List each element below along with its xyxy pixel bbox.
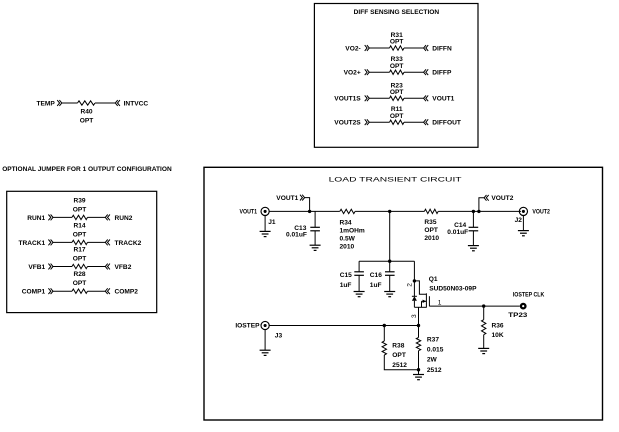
wire	[472, 211, 474, 227]
svg-text:RUN2: RUN2	[115, 215, 133, 222]
node mid node	[388, 210, 391, 213]
svg-text:J3: J3	[275, 333, 283, 340]
node R38 node	[383, 324, 386, 327]
svg-text:R35: R35	[424, 219, 436, 226]
wire	[418, 351, 420, 375]
wire	[355, 210, 424, 212]
svg-text:VOUT1S: VOUT1S	[334, 96, 361, 103]
svg-text:R14: R14	[73, 222, 85, 229]
wire	[418, 326, 420, 338]
svg-text:OPT: OPT	[73, 231, 87, 238]
wire	[314, 211, 316, 227]
svg-text:0.01uF: 0.01uF	[447, 229, 468, 236]
wire	[389, 211, 391, 261]
wire	[483, 306, 485, 320]
svg-text:DIFF SENSING SELECTION: DIFF SENSING SELECTION	[354, 9, 440, 16]
box LOAD TRANSIENT CIRCUIT	[204, 167, 603, 420]
svg-text:VO2-: VO2-	[345, 45, 360, 52]
off-page connector chevron TEMP	[57, 100, 59, 106]
resistor R39	[72, 215, 88, 219]
wire	[269, 210, 340, 212]
chevron DIFFP	[424, 69, 426, 75]
chevron TRACK1	[48, 240, 50, 246]
svg-text:R39: R39	[73, 197, 85, 204]
svg-text:R40: R40	[80, 109, 92, 116]
svg-text:R28: R28	[73, 271, 85, 278]
node Q1 drain node	[413, 279, 416, 282]
svg-text:INTVCC: INTVCC	[124, 100, 149, 107]
ground under C15	[354, 292, 365, 297]
resistor R23	[390, 96, 405, 100]
wire	[522, 216, 524, 231]
wire	[383, 326, 385, 342]
svg-text:RUN1: RUN1	[27, 215, 45, 222]
node VOUT1 stub junction	[308, 210, 311, 213]
chevron VOUT2	[484, 195, 486, 201]
svg-text:2512: 2512	[427, 367, 442, 374]
svg-text:OPT: OPT	[390, 39, 404, 46]
svg-text:10K: 10K	[492, 332, 504, 339]
svg-text:OPT: OPT	[80, 118, 94, 125]
svg-text:R37: R37	[427, 336, 439, 343]
wire	[264, 216, 266, 232]
svg-text:COMP1: COMP1	[22, 289, 46, 296]
svg-text:C15: C15	[340, 272, 352, 279]
wire	[369, 71, 389, 73]
transistor Q1	[412, 281, 430, 308]
wire	[62, 102, 78, 104]
chevron RUN1	[48, 215, 50, 221]
wire	[389, 261, 391, 272]
resistor R40	[78, 101, 96, 105]
svg-text:OPT: OPT	[392, 352, 406, 359]
node source node	[417, 324, 420, 327]
wire	[314, 231, 316, 245]
ground under C13	[310, 245, 321, 250]
wire	[305, 198, 310, 212]
svg-text:2010: 2010	[424, 235, 439, 242]
svg-text:R38: R38	[392, 342, 404, 349]
svg-text:VOUT1: VOUT1	[432, 96, 454, 103]
resistor R37	[416, 338, 420, 351]
chevron DIFFN	[424, 45, 426, 51]
wire	[389, 275, 391, 291]
resistor R36	[482, 320, 486, 335]
off-page connector chevron INTVCC	[115, 100, 117, 106]
wire	[264, 330, 266, 350]
wire	[88, 290, 106, 292]
wire	[369, 47, 389, 49]
resistor R35	[424, 209, 438, 213]
svg-text:1mOHm: 1mOHm	[340, 227, 365, 234]
svg-text:OPT: OPT	[390, 89, 404, 96]
svg-text:IOSTEP CLK: IOSTEP CLK	[513, 291, 545, 298]
wire	[53, 290, 72, 292]
chevron VOUT1S	[365, 95, 367, 101]
node R36 node	[482, 304, 485, 307]
wire	[404, 121, 424, 123]
connector J3	[261, 321, 269, 329]
ground under R36	[478, 348, 489, 353]
wire	[95, 102, 115, 104]
svg-text:3: 3	[411, 314, 418, 318]
svg-text:VOUT2: VOUT2	[532, 208, 550, 215]
svg-text:LOAD TRANSIENT CIRCUIT: LOAD TRANSIENT CIRCUIT	[329, 177, 462, 184]
wire	[413, 261, 415, 281]
connector J2	[519, 207, 527, 215]
chevron COMP1	[48, 288, 50, 294]
resistor R14	[72, 240, 88, 244]
wire	[483, 335, 485, 349]
wire	[404, 97, 424, 99]
box DIFF SENSING SELECTION	[314, 4, 478, 148]
wire	[384, 355, 418, 370]
svg-text:J1: J1	[268, 219, 276, 226]
svg-text:IOSTEP: IOSTEP	[235, 323, 260, 330]
wire	[88, 216, 106, 218]
node R37 bottom node	[417, 368, 420, 371]
svg-text:R17: R17	[73, 247, 85, 254]
resistor R34	[340, 209, 355, 213]
svg-text:VO2+: VO2+	[344, 70, 361, 77]
svg-text:COMP2: COMP2	[115, 289, 139, 296]
svg-text:2010: 2010	[340, 244, 355, 251]
resistor R38	[382, 341, 386, 355]
svg-text:2512: 2512	[392, 362, 407, 369]
wire	[53, 216, 72, 218]
capacitor C16	[385, 272, 395, 276]
chevron TRACK2	[105, 240, 107, 246]
capacitor C14	[469, 227, 479, 231]
ground under J1	[260, 231, 271, 236]
capacitor C15	[354, 272, 364, 276]
chevron VO2-	[365, 45, 367, 51]
chevron VOUT1	[424, 95, 426, 101]
chevron DIFFOUT	[424, 119, 426, 125]
node VOUT2 stub junction	[477, 210, 480, 213]
svg-text:OPT: OPT	[390, 63, 404, 70]
svg-text:2: 2	[407, 283, 414, 287]
svg-text:0.015: 0.015	[427, 347, 444, 354]
svg-text:VOUT2: VOUT2	[491, 195, 513, 202]
wire	[472, 231, 474, 246]
test point TP23	[520, 303, 527, 310]
node C16 node	[388, 260, 391, 263]
svg-text:OPT: OPT	[390, 113, 404, 120]
ground under C16	[384, 292, 395, 297]
svg-text:Q1: Q1	[429, 276, 438, 283]
wire	[438, 210, 521, 212]
ground under C14	[468, 246, 479, 251]
svg-text:TRACK1: TRACK1	[18, 240, 45, 247]
svg-text:VFB2: VFB2	[115, 264, 132, 271]
chevron VO2+	[365, 69, 367, 75]
chevron VOUT1	[300, 195, 302, 201]
resistor R17	[72, 264, 88, 268]
svg-text:DIFFN: DIFFN	[432, 45, 452, 52]
svg-text:TRACK2: TRACK2	[115, 240, 142, 247]
box optional jumper	[7, 191, 157, 312]
ground under R37	[413, 375, 424, 380]
wire	[369, 97, 389, 99]
chevron VFB2	[105, 264, 107, 270]
wire	[404, 47, 424, 49]
svg-text:0.5W: 0.5W	[340, 236, 356, 243]
svg-text:0.01uF: 0.01uF	[286, 232, 307, 239]
svg-text:2W: 2W	[427, 357, 438, 364]
wire	[418, 307, 420, 325]
svg-text:DIFFP: DIFFP	[432, 70, 452, 77]
resistor R11	[390, 120, 405, 124]
chevron COMP2	[105, 288, 107, 294]
wire	[358, 261, 360, 272]
wire	[53, 241, 72, 243]
ground under J3	[260, 350, 271, 355]
wire	[358, 275, 360, 291]
wire	[404, 71, 424, 73]
wire	[359, 260, 414, 262]
wire	[269, 325, 418, 327]
svg-text:1: 1	[438, 300, 442, 307]
chevron RUN2	[105, 215, 107, 221]
node C14 junction	[472, 210, 475, 213]
svg-text:C16: C16	[370, 272, 382, 279]
svg-text:VOUT2S: VOUT2S	[334, 120, 361, 127]
svg-text:OPT: OPT	[73, 256, 87, 263]
resistor R31	[390, 46, 405, 50]
svg-text:R36: R36	[492, 322, 504, 329]
svg-text:VOUT1: VOUT1	[276, 195, 298, 202]
ground under J2	[518, 231, 529, 236]
wire	[369, 121, 389, 123]
svg-text:1uF: 1uF	[340, 282, 352, 289]
svg-text:DIFFOUT: DIFFOUT	[432, 120, 461, 127]
svg-text:VFB1: VFB1	[28, 264, 45, 271]
svg-text:OPT: OPT	[73, 206, 87, 213]
svg-text:SUD50N03-09P: SUD50N03-09P	[429, 285, 477, 292]
svg-text:OPTIONAL JUMPER FOR 1 OUTPUT C: OPTIONAL JUMPER FOR 1 OUTPUT CONFIGURATI…	[2, 166, 172, 173]
svg-text:TEMP: TEMP	[36, 100, 55, 107]
wire	[88, 266, 106, 268]
capacitor C13	[310, 227, 320, 231]
wire	[53, 266, 72, 268]
resistor R28	[72, 289, 88, 293]
svg-text:R34: R34	[340, 219, 352, 226]
wire	[429, 305, 519, 307]
svg-text:VOUT1: VOUT1	[240, 208, 258, 215]
svg-text:1uF: 1uF	[370, 282, 382, 289]
svg-text:OPT: OPT	[73, 280, 87, 287]
svg-text:TP23: TP23	[508, 312, 527, 319]
wire	[479, 198, 484, 212]
svg-text:OPT: OPT	[424, 227, 438, 234]
chevron VFB1	[48, 264, 50, 270]
svg-text:J2: J2	[515, 217, 523, 224]
chevron VOUT2S	[365, 119, 367, 125]
connector J1	[261, 207, 269, 215]
resistor R33	[390, 70, 405, 74]
wire	[88, 241, 106, 243]
